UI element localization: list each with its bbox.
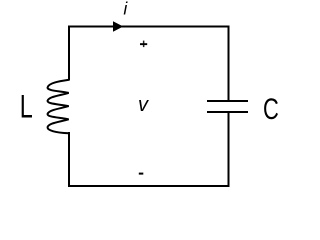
inductor L coil xyxy=(48,80,69,133)
wire bottom horizontal xyxy=(68,185,230,187)
wire left vertical upper xyxy=(68,26,70,81)
wire left vertical lower xyxy=(68,132,70,187)
current arrow xyxy=(113,21,123,31)
wire right vertical lower xyxy=(228,112,230,187)
capacitor C plates xyxy=(207,100,248,102)
minus polarity xyxy=(139,173,144,175)
svg-text:L: L xyxy=(20,88,33,125)
svg-text:v: v xyxy=(138,94,149,116)
wire right vertical upper xyxy=(228,26,230,102)
plus polarity xyxy=(140,43,147,45)
svg-text:C: C xyxy=(263,92,279,126)
wire top horizontal xyxy=(68,26,230,28)
